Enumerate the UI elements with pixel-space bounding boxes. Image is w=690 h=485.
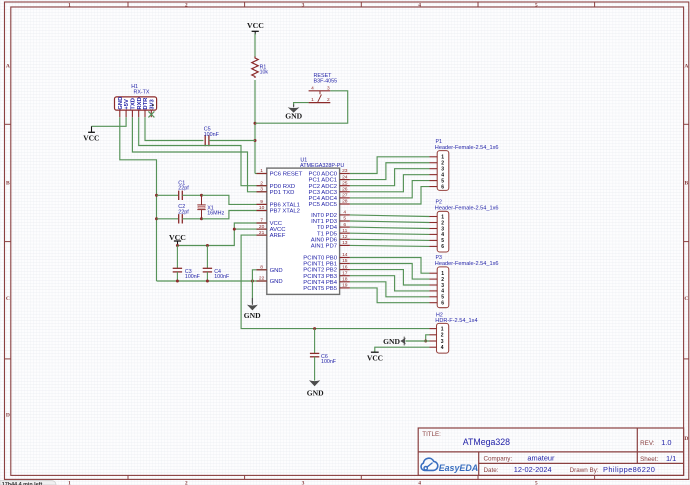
wire C1 row <box>157 194 179 196</box>
svg-text:2: 2 <box>260 180 263 186</box>
wire H1 TXD to IC pin3 <box>132 117 266 192</box>
wire IC pin 19 to P3 pin 6 <box>350 288 430 303</box>
wire H1 +5V to VCC flag <box>92 117 127 126</box>
browser status overlay <box>0 481 56 485</box>
svg-text:1/1: 1/1 <box>666 454 676 463</box>
svg-text:7: 7 <box>260 218 263 224</box>
wire IC pin 27 to P1 pin 5 <box>350 181 430 198</box>
svg-text:1: 1 <box>311 97 314 103</box>
connector H1 RX-TX <box>115 84 157 117</box>
svg-text:8: 8 <box>260 265 263 271</box>
svg-text:3: 3 <box>260 187 263 193</box>
wire IC pin 16 to P3 pin 3 <box>350 270 430 285</box>
IC U1 pin 3 PD1 TXD <box>257 187 295 196</box>
wire H2 pin2 to pin3 net <box>426 335 430 341</box>
svg-text:Drawn By:: Drawn By: <box>570 467 599 474</box>
ground flag below C6 <box>307 380 324 397</box>
title block <box>418 428 683 475</box>
svg-text:16: 16 <box>342 264 348 270</box>
svg-text:REV:: REV: <box>640 440 655 447</box>
wire H1 RXD to IC pin2 <box>139 117 267 186</box>
svg-text:20: 20 <box>259 224 265 230</box>
svg-text:Date:: Date: <box>484 467 499 474</box>
connector P3 pin 5 <box>430 295 445 301</box>
svg-text:GND: GND <box>270 279 283 285</box>
svg-text:PC4 ADC4: PC4 ADC4 <box>309 196 338 202</box>
wire crystal bottom to xtal2 jog <box>202 211 267 219</box>
svg-text:2: 2 <box>185 480 188 485</box>
wire IC pin 4 to P2 pin 1 <box>350 215 430 217</box>
junction C6 top <box>313 327 316 330</box>
svg-text:B: B <box>685 181 689 187</box>
svg-text:VCC: VCC <box>247 21 264 30</box>
frame row labels A-D right <box>684 63 688 442</box>
IC U1 pin 14 PCINT0 PB0 <box>303 252 350 261</box>
wire R1 to reset node <box>254 80 256 174</box>
IC U1 pin 4 INT0 PD2 <box>311 210 350 219</box>
svg-text:28: 28 <box>342 199 348 205</box>
junction C5 node <box>254 139 257 142</box>
IC U1 pin 17 PCINT3 PB3 <box>303 270 350 279</box>
svg-text:B: B <box>6 181 10 187</box>
wire H2 pin3 to ground flag <box>405 340 429 342</box>
svg-text:Company:: Company: <box>484 455 513 462</box>
wire H1 DTR to C5 <box>145 117 203 140</box>
IC U1 pin 9 PB6 XTAL1 <box>257 199 300 208</box>
connector P3 pin 6 <box>430 301 445 307</box>
IC U1 pin 23 PC0 ADC0 <box>309 168 350 177</box>
power flag VCC top <box>247 21 264 35</box>
wire IC pin 12 to P2 pin 5 <box>350 239 430 240</box>
no-connect cross on 3V3 pin <box>148 111 154 117</box>
svg-text:PC3 ADC3: PC3 ADC3 <box>309 190 338 196</box>
connector P3 pin 2 <box>430 277 445 283</box>
wire VCC rail to IC pin7 <box>177 223 266 246</box>
junction C3 bottom <box>176 280 179 283</box>
svg-text:22pf: 22pf <box>178 210 189 216</box>
svg-text:Header-Female-2.54_1x6: Header-Female-2.54_1x6 <box>435 261 499 267</box>
svg-text:TXD: TXD <box>131 98 137 110</box>
wire IC pin 17 to P3 pin 4 <box>350 276 430 291</box>
svg-text:1: 1 <box>68 480 71 485</box>
svg-text:GND: GND <box>270 268 283 274</box>
svg-text:13: 13 <box>342 240 348 246</box>
svg-text:PC2 ADC2: PC2 ADC2 <box>309 184 337 190</box>
junction crystal top <box>200 194 203 197</box>
svg-text:+5V: +5V <box>124 99 130 110</box>
wire IC pin 25 to P1 pin 3 <box>350 169 430 186</box>
svg-text:6: 6 <box>441 244 444 250</box>
junction VCC-C4 <box>206 244 209 247</box>
IC U1 pin 6 T0 PD4 <box>317 222 350 231</box>
svg-text:16MHz: 16MHz <box>207 211 224 217</box>
IC U1 pin 26 PC3 ADC3 <box>309 187 350 196</box>
resistor R1 10k <box>252 57 269 78</box>
ground flag below reset switch <box>285 105 302 121</box>
power flag VCC left <box>83 126 99 142</box>
IC U1 pin 2 PD0 RXD <box>257 180 296 189</box>
wire IC pin 28 to P1 pin 6 <box>350 187 430 204</box>
svg-text:VCC: VCC <box>83 134 99 143</box>
svg-text:4: 4 <box>343 210 346 216</box>
svg-text:5: 5 <box>535 3 538 9</box>
frame column labels 1-5 bottom <box>68 480 538 485</box>
connector H2 HDR-F-2.54_1x4 <box>435 313 477 354</box>
wire reset switch pin3 loop <box>255 91 348 123</box>
IC U1 pin 12 AIN0 PD6 <box>311 234 350 243</box>
op IC U1 ATMEGA328P-PU body <box>267 158 345 295</box>
svg-text:Header-Female-2.54_1x6: Header-Female-2.54_1x6 <box>435 145 499 151</box>
connector P1 pin 1 <box>430 155 445 161</box>
svg-text:T0 PD4: T0 PD4 <box>317 225 338 231</box>
svg-text:3: 3 <box>302 3 305 9</box>
svg-text:GND: GND <box>118 97 124 110</box>
IC U1 pin 21 AREF <box>257 230 286 239</box>
connector H2 pin 1 <box>430 326 444 332</box>
svg-text:19: 19 <box>342 283 348 289</box>
svg-text:18: 18 <box>342 277 348 283</box>
svg-text:TITLE:: TITLE: <box>422 431 441 438</box>
svg-text:3V3: 3V3 <box>149 99 155 110</box>
svg-text:100nF: 100nF <box>185 274 201 280</box>
wire C2 row <box>157 218 179 220</box>
connector P1 pin 5 <box>430 178 445 184</box>
junction C2 left <box>155 217 158 220</box>
svg-text:9: 9 <box>260 199 263 205</box>
pushbutton RESET B3F-4055 <box>309 73 338 103</box>
connector P3 pin 4 <box>430 289 445 295</box>
wire crystal top to xtal1 jog <box>202 195 267 204</box>
svg-text:10: 10 <box>259 205 265 211</box>
connector P1 pin 6 <box>430 184 445 190</box>
svg-text:GND: GND <box>244 311 261 320</box>
svg-text:AREF: AREF <box>270 233 286 239</box>
svg-text:AIN1 PD7: AIN1 PD7 <box>311 244 337 250</box>
svg-text:PCINT2 PB2: PCINT2 PB2 <box>303 268 337 274</box>
svg-text:27: 27 <box>342 193 348 199</box>
svg-text:100nF: 100nF <box>204 132 220 138</box>
svg-text:10k: 10k <box>260 70 269 76</box>
junction C4 bottom <box>206 280 209 283</box>
svg-text:1: 1 <box>260 168 263 174</box>
crystal X1 16MHz <box>197 195 224 219</box>
connector P3 pin 1 <box>430 271 445 277</box>
svg-text:GND: GND <box>383 337 400 346</box>
power flag VCC at H2 (inverted) <box>367 352 383 362</box>
svg-text:C: C <box>684 296 688 302</box>
svg-text:2: 2 <box>327 97 330 103</box>
junction H2 pin2/3 <box>424 340 427 343</box>
IC U1 pin 22 GND <box>257 276 283 285</box>
wire IC pin 11 to P2 pin 4 <box>350 233 430 234</box>
svg-text:Header-Female-2.54_1x6: Header-Female-2.54_1x6 <box>435 206 499 212</box>
svg-text:amateur: amateur <box>527 453 555 462</box>
svg-text:1: 1 <box>441 326 444 332</box>
svg-text:4: 4 <box>418 480 421 485</box>
svg-text:15: 15 <box>342 258 348 264</box>
svg-text:23: 23 <box>342 168 348 174</box>
IC U1 pin 19 PCINT5 PB5 <box>303 283 350 292</box>
svg-text:PCINT3 PB3: PCINT3 PB3 <box>303 274 337 280</box>
connector P3 Header-Female-2.54_1x6 <box>435 255 499 307</box>
junction VCC-C3 <box>176 244 179 247</box>
IC U1 pin 8 GND <box>257 265 283 274</box>
frame row labels A-D left <box>6 63 10 418</box>
svg-text:24: 24 <box>342 174 348 180</box>
svg-text:PC0 ADC0: PC0 ADC0 <box>309 172 338 178</box>
junction gnd rail drop <box>251 280 254 283</box>
wire C1 to crystal node <box>182 194 201 196</box>
svg-text:4: 4 <box>418 3 421 9</box>
IC U1 pin 7 VCC <box>257 218 283 227</box>
capacitor C5 100nF <box>204 126 220 146</box>
svg-text:100nF: 100nF <box>321 359 337 365</box>
IC U1 pin 16 PCINT2 PB2 <box>303 264 350 273</box>
svg-text:INT0 PD2: INT0 PD2 <box>311 213 337 219</box>
svg-text:PB7 XTAL2: PB7 XTAL2 <box>270 209 300 215</box>
wire VCC to R1 <box>254 34 256 58</box>
svg-text:Philippe86220: Philippe86220 <box>603 465 655 474</box>
svg-text:A: A <box>684 63 688 69</box>
svg-text:21: 21 <box>259 230 265 236</box>
svg-text:VCC: VCC <box>367 354 383 363</box>
svg-text:PC5 ADC5: PC5 ADC5 <box>309 202 338 208</box>
ground rail wire <box>157 280 267 282</box>
wire C2 to crystal node <box>182 218 201 220</box>
connector P2 pin 2 <box>430 220 445 226</box>
junction AVCC <box>233 228 236 231</box>
svg-text:12-02-2024: 12-02-2024 <box>514 465 552 474</box>
svg-text:T1 PD5: T1 PD5 <box>317 231 338 237</box>
wire reset node to IC pin1 <box>255 173 267 175</box>
connector P1 pin 4 <box>430 172 445 178</box>
ground flag below IC <box>244 298 261 320</box>
IC U1 pin 15 PCINT1 PB1 <box>303 258 350 267</box>
svg-text:3: 3 <box>327 85 330 91</box>
IC U1 pin 25 PC2 ADC2 <box>309 180 350 189</box>
connector P1 pin 3 <box>430 167 445 173</box>
connector P1 pin 2 <box>430 161 445 167</box>
frame column labels 1-5 top <box>68 3 538 9</box>
junction reset-switch node <box>254 122 257 125</box>
IC U1 pin 10 PB7 XTAL2 <box>257 205 300 214</box>
svg-text:PCINT1 PB1: PCINT1 PB1 <box>303 262 337 268</box>
svg-text:100nF: 100nF <box>214 274 230 280</box>
svg-text:PD0 RXD: PD0 RXD <box>270 184 296 190</box>
svg-text:22: 22 <box>259 276 265 282</box>
connector H2 pin 2 <box>430 333 444 339</box>
svg-text:B3F-4055: B3F-4055 <box>314 79 338 85</box>
ground flag sideways at H2 <box>383 337 406 346</box>
svg-text:1: 1 <box>68 3 71 9</box>
connector H2 pin 4 <box>430 345 444 351</box>
connector P2 pin 4 <box>430 232 445 238</box>
svg-text:3: 3 <box>441 339 444 345</box>
IC U1 pin 5 INT1 PD3 <box>311 216 350 225</box>
wire C5 to reset node <box>209 140 255 142</box>
connector P1 Header-Female-2.54_1x6 <box>435 139 499 191</box>
svg-text:VCC: VCC <box>270 221 283 227</box>
wire IC pin 26 to P1 pin 4 <box>350 175 430 192</box>
svg-text:5: 5 <box>535 480 538 485</box>
svg-text:6: 6 <box>343 222 346 228</box>
svg-text:22pf: 22pf <box>178 186 189 192</box>
svg-text:D: D <box>684 436 688 442</box>
svg-text:2: 2 <box>185 3 188 9</box>
svg-text:6: 6 <box>441 184 444 190</box>
svg-text:11: 11 <box>342 228 347 234</box>
wire H1 GND down to ground rail <box>120 117 157 281</box>
svg-text:3: 3 <box>302 480 305 485</box>
IC U1 pin 18 PCINT4 PB4 <box>303 277 350 286</box>
svg-text:26: 26 <box>342 187 348 193</box>
svg-text:PCINT4 PB4: PCINT4 PB4 <box>303 280 337 286</box>
capacitor C2 22pf <box>178 204 189 223</box>
wire H2 pin4 to VCC flag <box>375 347 430 352</box>
svg-text:DTR: DTR <box>143 97 149 110</box>
IC U1 pin 13 AIN1 PD7 <box>311 240 350 249</box>
connector P2 Header-Female-2.54_1x6 <box>435 200 499 252</box>
wire IC pin 24 to P1 pin 2 <box>350 163 430 180</box>
svg-text:Sheet:: Sheet: <box>640 456 658 463</box>
capacitor C4 100nF <box>203 246 230 282</box>
IC U1 pin 24 PC1 ADC1 <box>309 174 350 183</box>
svg-text:PC1 ADC1: PC1 ADC1 <box>309 178 337 184</box>
svg-text:4: 4 <box>441 345 444 351</box>
svg-text:14: 14 <box>342 252 348 258</box>
svg-text:6: 6 <box>441 301 444 307</box>
svg-text:A: A <box>6 63 10 69</box>
svg-text:AIN0 PD6: AIN0 PD6 <box>311 237 338 243</box>
svg-text:2: 2 <box>441 333 444 339</box>
capacitor C1 22pf <box>178 180 189 200</box>
IC U1 pin 20 AVCC <box>257 224 287 233</box>
svg-text:D: D <box>6 413 10 419</box>
svg-text:1.0: 1.0 <box>661 438 671 447</box>
wire gnd rail down <box>251 281 253 303</box>
IC U1 pin 11 T1 PD5 <box>317 228 350 237</box>
svg-text:PB6 XTAL1: PB6 XTAL1 <box>270 203 300 209</box>
connector P3 pin 3 <box>430 283 445 289</box>
svg-text:EasyEDA: EasyEDA <box>439 463 478 473</box>
connector H2 pin 3 <box>430 339 444 345</box>
svg-text:17: 17 <box>342 270 348 276</box>
wire IC pin 18 to P3 pin 5 <box>350 282 430 297</box>
svg-text:PCINT5 PB5: PCINT5 PB5 <box>303 286 337 292</box>
svg-text:4: 4 <box>311 85 314 91</box>
wire IC pin 6 to P2 pin 3 <box>350 227 430 228</box>
svg-text:INT1 PD3: INT1 PD3 <box>311 219 338 225</box>
svg-text:12: 12 <box>342 234 348 240</box>
svg-text:C: C <box>6 296 10 302</box>
power flag VCC middle <box>169 233 186 245</box>
svg-text:ATMega328: ATMega328 <box>463 437 510 447</box>
IC U1 pin 28 PC5 ADC5 <box>309 199 350 208</box>
svg-text:GND: GND <box>307 389 324 398</box>
wire IC pin 13 to P2 pin 6 <box>350 245 430 246</box>
svg-text:GND: GND <box>285 112 302 121</box>
svg-text:RX-TX: RX-TX <box>134 90 150 96</box>
connector P2 pin 1 <box>430 214 445 220</box>
svg-text:RXD: RXD <box>137 97 143 109</box>
wire AVCC branch <box>234 228 266 230</box>
wire AREF to H2 pin1 <box>241 235 429 329</box>
IC U1 pin 1 PC6 RESET <box>257 168 303 177</box>
svg-text:PC6 RESET: PC6 RESET <box>270 172 303 178</box>
IC U1 pin 27 PC4 ADC4 <box>309 193 350 202</box>
svg-text:PD1 TXD: PD1 TXD <box>270 190 295 196</box>
wire IC pin 5 to P2 pin 2 <box>350 221 430 223</box>
capacitor C6 100nF <box>310 329 337 381</box>
capacitor C3 100nF <box>173 246 201 282</box>
svg-text:25: 25 <box>342 180 348 186</box>
EasyEDA logo <box>421 458 478 473</box>
connector P2 pin 3 <box>430 226 445 232</box>
wire IC pin 23 to P1 pin 1 <box>350 157 430 174</box>
wire IC pin 14 to P3 pin 1 <box>350 258 430 274</box>
junction crystal bottom <box>200 217 203 220</box>
wire IC pin8 GND branch <box>252 270 266 281</box>
junction C1 left <box>155 194 158 197</box>
connector P2 pin 5 <box>430 238 445 244</box>
connector P2 pin 6 <box>430 244 445 250</box>
wire IC pin 15 to P3 pin 2 <box>350 264 430 280</box>
svg-text:5: 5 <box>343 216 346 222</box>
wire reset switch pin1 to ground <box>294 103 309 106</box>
